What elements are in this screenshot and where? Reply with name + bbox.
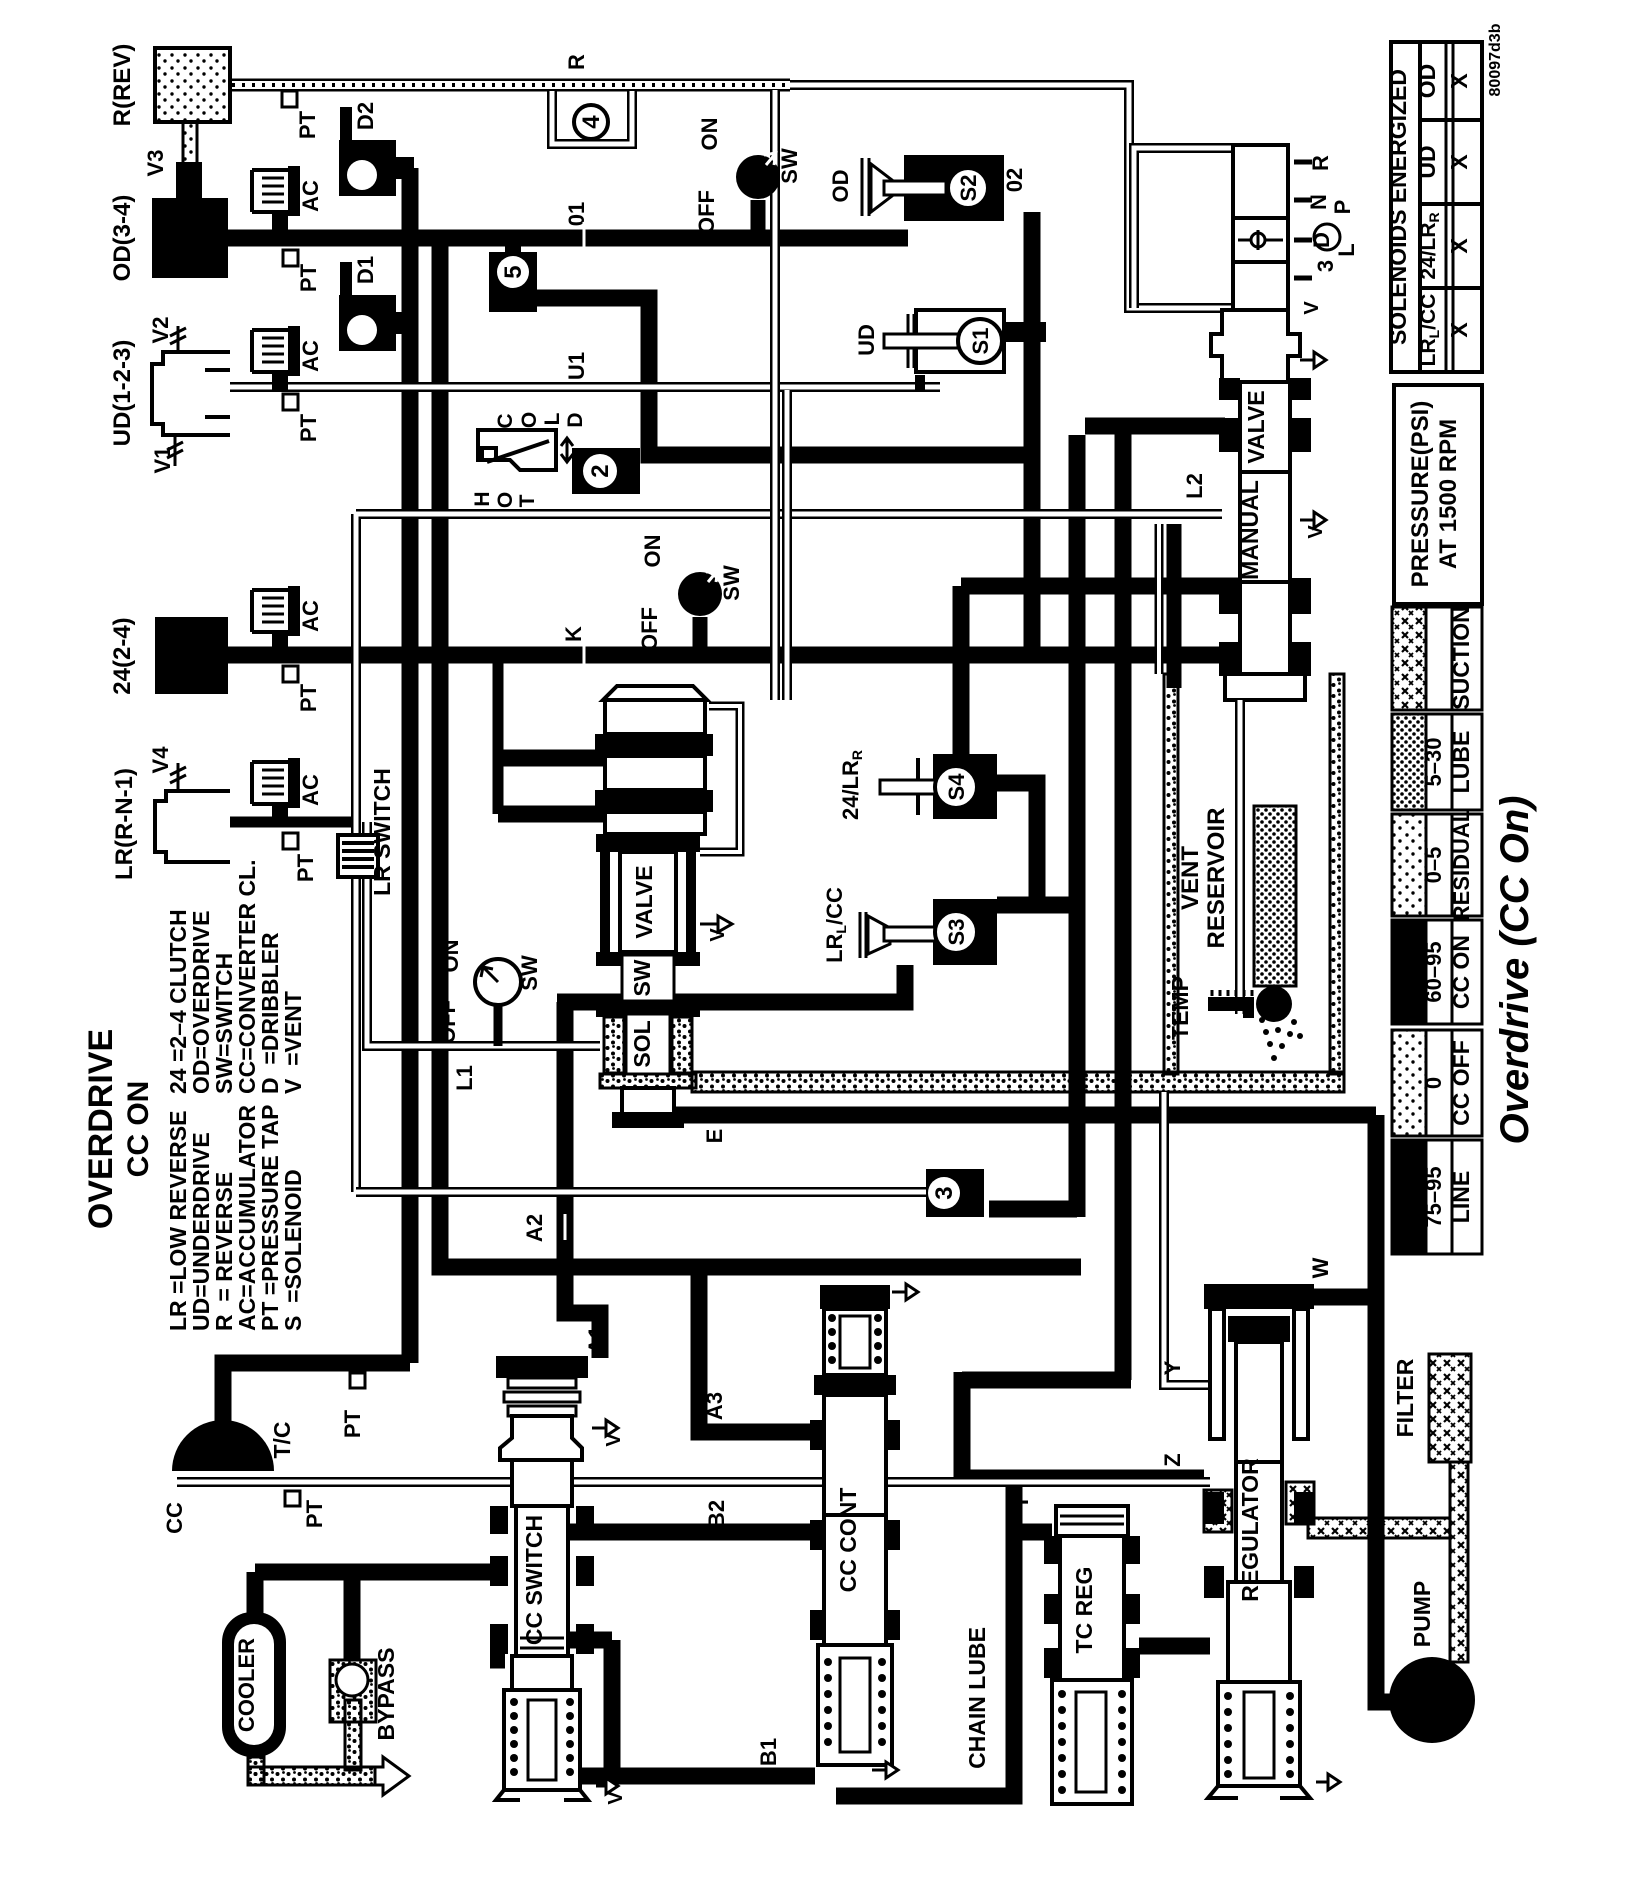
wire SOL stipple band to reservoir [692,1072,1344,1092]
svg-text:60–95: 60–95 [1421,941,1446,1002]
svg-text:S1: S1 [968,328,993,355]
suction pipe to regulator [1308,1518,1450,1538]
svg-text:SOLENOIDS ENERGIZED: SOLENOIDS ENERGIZED [1385,69,1411,345]
svg-text:02: 02 [1002,168,1027,192]
legend column 1 [165,1105,306,1331]
wire S1 bottom pipe [915,375,925,392]
wire E line [648,1107,1376,1124]
reservoir standpipe [1235,700,1245,1014]
wire U1 line [230,382,940,392]
svg-text:SOL: SOL [629,1020,655,1067]
svg-text:OD: OD [828,170,853,203]
pressure tap PT below LR line [283,833,298,849]
clutch UD(1-2-3) bracket [152,352,230,435]
svg-text:LINE: LINE [1448,1171,1474,1223]
svg-text:D: D [564,412,587,427]
pressure table row RESIDUAL 0-5 [1392,809,1482,921]
svg-text:RESERVOIR: RESERVOIR [1203,808,1230,949]
svg-text:UD(1-2-3): UD(1-2-3) [109,340,136,447]
wire loop lines right of spool [775,90,787,700]
solenoid S1 (UD) [884,310,1046,372]
wire converter/cooler line [177,1477,1210,1487]
valve TC REG [1044,1506,1140,1804]
manual valve bottom flange [1225,674,1305,700]
pump PUMP [1389,1657,1475,1743]
table SOLENOIDS ENERGIZED [1391,42,1482,372]
svg-text:0: 0 [1421,1077,1446,1089]
svg-text:RESIDUAL: RESIDUAL [1449,809,1474,921]
legend column 2 [165,860,306,1095]
svg-text:E: E [702,1129,727,1144]
svg-text:2: 2 [587,464,614,477]
wire L1 line [367,822,600,1046]
wire T/C feed elbow [223,1363,410,1470]
svg-text:T/C: T/C [269,1421,295,1458]
svg-text:O: O [494,492,517,508]
valve body VALVE section [596,834,700,952]
svg-text:LRL/CC: LRL/CC [822,887,849,963]
arrow thermostat travel [561,438,573,462]
manual valve label MANUAL [1240,472,1290,582]
svg-text:80097d3b: 80097d3b [1487,23,1504,96]
svg-text:AC: AC [298,340,323,372]
accumulator AC 3 [252,586,300,650]
pressure tap PT on T/C feed [350,1373,365,1388]
node 5 [489,242,537,312]
pressure table row CC ON 60-95 [1392,920,1482,1024]
cooler COOLER [222,1612,286,1757]
gauge SW (lockup) [475,959,521,1046]
wire pump outlet riser [1376,1115,1396,1702]
wire LR circuit line [230,817,356,828]
svg-text:T: T [1008,1495,1033,1509]
svg-text:PRESSURE(PSI): PRESSURE(PSI) [1407,401,1434,588]
wire 3 thin line [356,1187,935,1197]
vent V3 stem [183,122,197,166]
svg-text:VALVE: VALVE [631,865,657,938]
svg-text:D2: D2 [353,102,378,130]
svg-text:R(REV): R(REV) [109,44,136,127]
pressure table row SUCTION [1392,606,1482,710]
svg-text:SW: SW [719,565,744,601]
svg-text:AC: AC [298,600,323,632]
svg-text:A3: A3 [702,1392,727,1420]
svg-text:TC REG: TC REG [1071,1567,1097,1654]
svg-text:SUCTION: SUCTION [1448,606,1474,710]
wire long vertical bus 1 [402,168,419,1363]
svg-text:D1: D1 [353,256,378,284]
svg-text:V =VENT: V =VENT [280,991,306,1094]
node 2 [572,448,640,494]
manual valve lower bore [1240,582,1290,674]
wire S4 right arm to S3 [997,783,1037,905]
wire R line plain to manual valve [790,85,1231,308]
svg-text:PT: PT [295,110,320,139]
svg-text:3: 3 [1313,260,1338,272]
clutch OD(3-4) [152,198,228,278]
valve CC CONT [810,1284,918,1778]
svg-text:X: X [1446,73,1472,89]
svg-text:V: V [707,928,729,942]
svg-text:V2: V2 [148,317,173,344]
svg-text:W: W [1308,1257,1333,1278]
svg-text:LR SWITCH: LR SWITCH [369,768,395,896]
manual valve stem bore [1233,145,1288,310]
svg-text:FILTER: FILTER [1392,1358,1418,1437]
wire Y vent line [1164,1092,1210,1385]
svg-text:5: 5 [500,265,527,278]
svg-text:V: V [1305,525,1327,539]
wire L2 line [356,514,1222,1192]
wire spool right loop [700,706,740,852]
vent V4 [170,763,186,791]
wire A3 line [699,1267,812,1432]
pressure table row LUBE 5-30 [1392,714,1482,810]
svg-text:L: L [541,412,564,425]
wire B2 line [570,1524,815,1541]
wire manual valve left port line [1085,418,1225,435]
svg-text:UD: UD [1414,145,1440,178]
wire main right drop (to Z) [1069,435,1086,1217]
valve SOL section [596,1001,700,1128]
svg-text:75–95: 75–95 [1421,1166,1446,1227]
svg-text:CC ON: CC ON [1448,935,1474,1009]
svg-text:OFF: OFF [435,1000,460,1044]
svg-text:V3: V3 [143,150,168,177]
wire A2 vertical [565,1002,600,1358]
svg-text:V: V [603,1433,625,1447]
valve REGULATOR [1204,1284,1340,1798]
svg-text:AC: AC [298,180,323,212]
svg-text:A1: A1 [584,1326,609,1354]
svg-text:CHAIN LUBE: CHAIN LUBE [964,1627,990,1769]
svg-text:LUBE: LUBE [1448,731,1474,794]
pressure table row CC OFF 0 [1392,1030,1482,1136]
node 3 [926,1169,984,1217]
svg-text:COOLER: COOLER [234,1638,259,1732]
dribbler D1 [339,262,414,351]
svg-text:PT: PT [296,263,321,292]
pressure tap PT on converter line [285,1491,300,1506]
valve LR SWITCH [338,835,378,877]
pressure tap PT below 01 [283,250,298,266]
svg-text:5–30: 5–30 [1421,738,1446,787]
svg-text:AT 1500 RPM: AT 1500 RPM [1435,419,1462,569]
wire CC SWITCH lower left stub [490,1652,505,1669]
svg-text:Overdrive (CC On): Overdrive (CC On) [1493,796,1537,1145]
solenoid S4 (24/LRr) [880,754,997,819]
accumulator AC 4 [252,758,300,818]
wire CC cooler feed line [255,1564,505,1581]
svg-text:SW: SW [517,955,542,991]
svg-text:S3: S3 [944,919,969,946]
svg-text:REGULATOR: REGULATOR [1237,1458,1263,1602]
switch SW (OD) [736,153,780,238]
switch SW (24) [678,570,722,655]
thermostat COLD/HOT [478,430,556,470]
wire K to valve assembly feed [493,663,504,814]
svg-text:P: P [1330,200,1355,215]
svg-text:X: X [1446,238,1472,254]
wire TC REG to regulator [1139,1638,1210,1655]
vent V3 plug [176,162,202,200]
svg-text:X: X [1446,322,1472,338]
svg-text:V4: V4 [148,746,173,774]
thermometer TEMP [1208,986,1303,1061]
svg-text:OD(3-4): OD(3-4) [109,195,136,282]
valve solenoid switch valve spool [595,700,713,834]
svg-text:PUMP: PUMP [1409,1581,1435,1647]
svg-text:B2: B2 [704,1500,729,1528]
svg-text:OFF: OFF [637,607,662,651]
svg-text:N: N [1306,194,1331,210]
svg-text:PT: PT [296,683,321,712]
wire SW-port cross line [557,965,905,1002]
accumulator AC 1 [252,166,300,234]
solenoid S3 (LRl/CC) [860,899,997,965]
svg-text:H: H [471,491,494,506]
svg-text:ON: ON [697,118,722,151]
pressure tap PT below K [283,666,298,682]
svg-text:SW: SW [777,148,802,184]
svg-text:B1: B1 [756,1738,781,1766]
shift gate ticks [1294,162,1312,278]
svg-text:CC SWITCH: CC SWITCH [521,1515,547,1645]
svg-text:OVERDRIVE: OVERDRIVE [82,1029,120,1229]
svg-text:ON: ON [438,940,463,973]
svg-text:CC: CC [162,1502,187,1534]
svg-text:V: V [605,1791,627,1805]
svg-text:S =SOLENOID: S =SOLENOID [280,1169,306,1331]
svg-text:X: X [1446,154,1472,170]
pressure tap PT on R line [282,91,297,107]
solenoid S2 (OD) [862,155,1004,221]
svg-text:PT: PT [340,1409,365,1438]
svg-text:V1: V1 [150,447,175,474]
wire 5-circle to 2-circle drop [537,298,1036,455]
vent V2 [170,326,186,352]
svg-text:S4: S4 [944,773,969,801]
svg-text:24/LRR: 24/LRR [838,750,865,820]
wire L2 return pipe to reservoir [1155,524,1164,674]
svg-text:L2: L2 [1182,473,1207,499]
reservoir R(REV) [155,48,230,122]
svg-text:O: O [518,412,541,428]
wire R reverse dotted line [228,79,790,92]
cooler outlet stippled pipe [248,1700,409,1795]
svg-text:R: R [1308,155,1333,171]
svg-text:UD: UD [854,324,879,356]
svg-text:OD: OD [1414,64,1440,99]
svg-text:PT: PT [302,1499,327,1528]
filter suction drop pipe [1450,1462,1468,1662]
node 4 loop [552,91,632,144]
wire bypass drop [344,1572,361,1660]
svg-text:AC: AC [298,774,323,806]
vent V1 [167,435,183,466]
pressure tap PT below U1 [283,394,298,410]
svg-text:CC CONT: CC CONT [835,1488,861,1593]
svg-text:LRL/CC: LRL/CC [1417,294,1442,367]
svg-text:Y: Y [1160,1360,1185,1375]
svg-text:0–5: 0–5 [1421,847,1446,884]
svg-text:TEMP: TEMP [1167,976,1193,1040]
reservoir fluid column [1254,806,1296,986]
wire manual valve drain to reservoir [1167,524,1182,688]
svg-text:CC ON: CC ON [122,1081,155,1178]
svg-text:24(2-4): 24(2-4) [109,617,136,694]
wire CC switch mid port to B1 [570,1640,612,1776]
svg-text:OFF: OFF [694,190,719,234]
vent V on valve [700,916,732,932]
manual valve ports upper [1219,378,1311,676]
svg-text:ON: ON [640,535,665,568]
svg-text:U1: U1 [564,352,589,380]
wire E to Z drop [962,426,1131,1478]
valve SW section [596,952,700,1001]
svg-text:L1: L1 [452,1065,477,1091]
pressure table row LINE 75-95 [1392,1140,1482,1254]
wire TC REG top left stub [1014,1524,1052,1541]
svg-text:BYPASS: BYPASS [373,1648,399,1741]
bypass valve BYPASS [330,1660,376,1722]
svg-text:3: 3 [931,1186,958,1199]
dribbler D2 [339,107,414,196]
manual valve detent [1233,218,1288,262]
table PRESSURE(PSI) AT 1500 RPM header [1394,385,1482,604]
svg-text:VALVE: VALVE [1243,390,1269,463]
svg-text:A2: A2 [522,1214,547,1242]
wire cooler drop [247,1572,264,1616]
manual valve label VALVE [1240,382,1290,472]
svg-text:CC OFF: CC OFF [1448,1040,1474,1126]
wire S3 top to main drop [997,897,1081,914]
svg-text:PT: PT [296,413,321,442]
accumulator AC 2 [252,326,300,390]
vent V mid manual valve [1300,512,1326,528]
clutch LR(R-N-1) bracket [155,791,230,862]
wire W line [1310,1289,1376,1306]
svg-text:PT: PT [293,853,318,882]
svg-text:C: C [494,413,517,428]
wire Z line [962,1470,1204,1487]
manual valve upper body [1211,310,1326,382]
wire K line (2-4 feed) [190,647,1240,664]
wire S2 drop [1024,212,1041,655]
wire B1 line [570,1768,815,1785]
torque converter T/C [172,1420,274,1471]
manual valve top loop [1134,148,1233,308]
svg-text:MANUAL: MANUAL [1237,480,1263,580]
wire long vertical bus 2 [440,246,1081,1267]
svg-text:SW: SW [629,959,655,996]
svg-text:K: K [561,626,586,642]
svg-text:T: T [516,494,539,507]
wire 3-box connector [989,1201,1077,1218]
svg-text:V: V [1301,301,1323,315]
clutch 24(2-4) [155,617,228,694]
svg-text:R: R [564,54,589,70]
svg-text:Z: Z [1160,1453,1185,1466]
wire line 01 (OD feed) [190,230,908,247]
svg-text:4: 4 [578,115,605,129]
svg-text:LR(R-N-1): LR(R-N-1) [111,768,138,880]
filter FILTER [1429,1354,1471,1462]
valve CC SWITCH [490,1356,618,1800]
valve spool top loop [603,686,707,700]
svg-text:VENT: VENT [1177,846,1204,910]
svg-text:S2: S2 [956,175,981,202]
wire manual valve feed (S4 branch) [961,578,1240,595]
wire T chain lube vertical [836,1487,1014,1796]
